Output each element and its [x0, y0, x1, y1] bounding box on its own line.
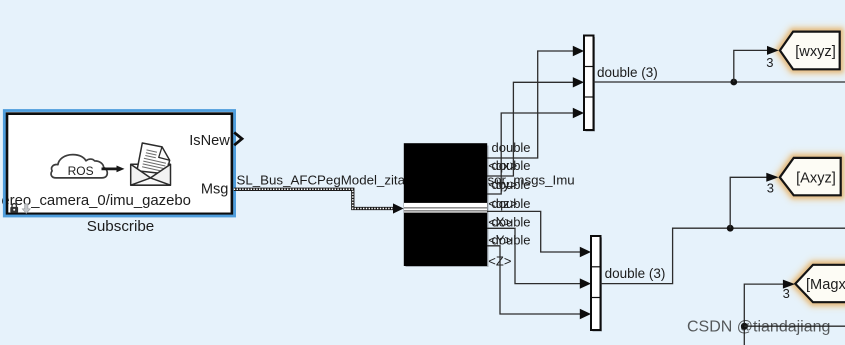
ROS cloud icon [51, 155, 107, 178]
svg-text:[wxyz]: [wxyz] [795, 44, 836, 60]
goto block Axyz [780, 158, 841, 195]
Subscribe block selection halo [4, 111, 234, 217]
envelope right flap [151, 164, 171, 185]
svg-text:<qy>: <qy> [488, 177, 517, 192]
bus selector block (black) [405, 144, 486, 264]
svg-text:3: 3 [766, 55, 773, 70]
arrow cloud to envelope [102, 166, 125, 173]
junction dot C [741, 323, 748, 330]
branch wire to wxyz [734, 50, 768, 82]
arrowheads into mux2 [580, 247, 591, 319]
mux2 divider 2 [591, 297, 601, 299]
double labels column [492, 140, 531, 247]
bus selector shadow [406, 146, 489, 268]
arrowhead into Axyz [766, 173, 778, 182]
Subscribe block body U1 [7, 114, 232, 214]
mux1 shadow [586, 37, 596, 132]
padlock icon [10, 204, 18, 213]
svg-text:ereo_camera_0/imu_gazebo: ereo_camera_0/imu_gazebo [1, 193, 191, 209]
Msg wire (selected, hatched) [234, 189, 394, 208]
Msg wire arrowhead [393, 203, 404, 213]
arrowhead into Magx [783, 280, 795, 289]
mux1 divider 2 [584, 96, 594, 98]
mux1 output wire [594, 81, 845, 83]
wire from below into Magx [744, 284, 783, 345]
junction dot A [730, 79, 737, 86]
svg-text:3: 3 [767, 180, 774, 195]
wire p6 [487, 246, 581, 314]
IsNew output port chevron [234, 132, 242, 145]
svg-text:SL_Bus_AFCPegModel_zita: SL_Bus_AFCPegModel_zita [237, 172, 406, 187]
branch wire to right edge [744, 325, 845, 327]
svg-text:Msg: Msg [201, 182, 229, 198]
envelope top edge stubs [131, 163, 171, 165]
mux2 bar [591, 236, 601, 330]
band stripe 2 [404, 210, 487, 212]
svg-text:IsNew: IsNew [189, 133, 230, 149]
envelope left flap [131, 164, 151, 185]
band stripe 1 [404, 207, 487, 209]
goto block wxyz [780, 32, 840, 70]
envelope bottom edge [131, 184, 171, 186]
wire p1 [487, 51, 574, 158]
svg-text:ROS: ROS [68, 164, 94, 178]
svg-text:[Axyz]: [Axyz] [796, 170, 836, 186]
goto Magx glow [795, 265, 845, 302]
svg-text:Subscribe: Subscribe [87, 218, 155, 235]
mux2 divider 1 [591, 266, 601, 268]
wire p5 [487, 228, 581, 283]
envelope body interior [131, 164, 171, 185]
mux1 divider 1 [584, 66, 594, 68]
svg-text:3: 3 [783, 286, 790, 301]
svg-text:double (3): double (3) [605, 266, 666, 281]
wire p4 [487, 211, 581, 252]
signal element name labels [488, 158, 517, 268]
junction dot B [727, 225, 734, 232]
branch wire to Axyz [730, 177, 767, 228]
mux1 bar [584, 36, 594, 131]
download arrow icon [22, 204, 30, 213]
wire p2 [487, 82, 574, 176]
block border redraw [7, 114, 232, 214]
envelope letter paper [137, 143, 170, 174]
mux2 output wire [601, 228, 845, 283]
mux2 shadow [593, 238, 603, 332]
svg-text:<qz>: <qz> [488, 196, 517, 211]
svg-text:double: double [492, 140, 531, 155]
svg-text:CSDN @tiandajiang: CSDN @tiandajiang [687, 319, 830, 336]
svg-text:[Magx: [Magx [806, 277, 845, 293]
svg-text:<X>: <X> [488, 214, 512, 229]
goto Axyz glow [780, 158, 841, 195]
svg-text:double (3): double (3) [597, 65, 658, 80]
goto wxyz glow [780, 32, 840, 70]
goto block Magx [795, 265, 845, 302]
arrowheads into mux1 [573, 46, 584, 118]
bus selector white band [404, 203, 487, 213]
arrowhead into wxyz [767, 46, 779, 55]
wire p3 [487, 113, 574, 194]
wires bus selector to muxes [487, 51, 581, 314]
